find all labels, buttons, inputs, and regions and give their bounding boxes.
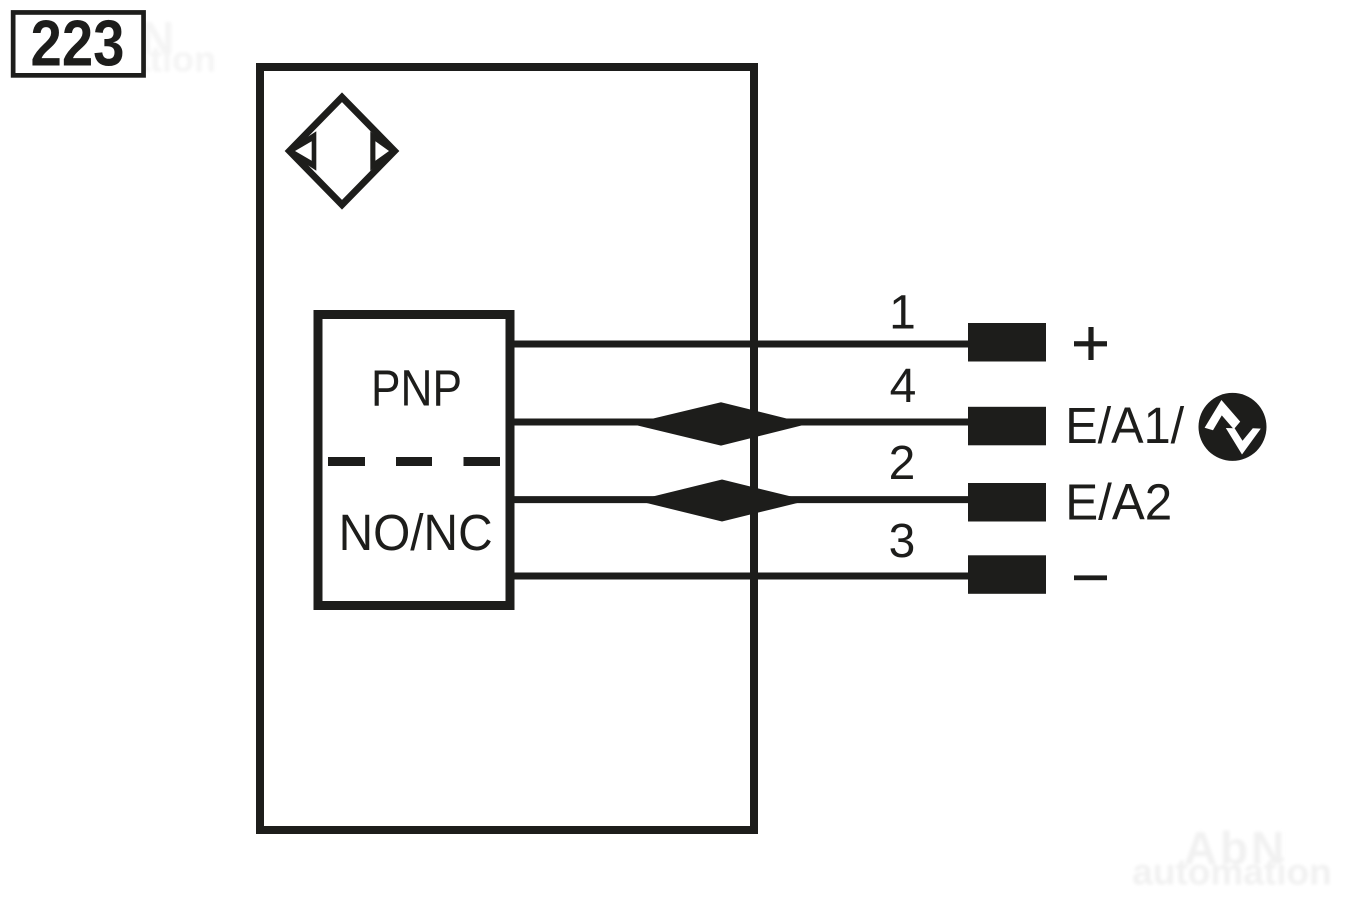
svg-text:NO/NC: NO/NC [339,504,493,561]
svg-text:PNP: PNP [371,360,462,417]
arrow diamond on wire 4 [631,402,808,445]
svg-text:2: 2 [889,437,916,490]
terminal pin 1 [968,323,1046,362]
terminal pin 3 [968,555,1046,594]
minus label [1074,575,1107,580]
wire 1 [508,341,968,348]
svg-text:E/A1/: E/A1/ [1065,397,1185,454]
dashed divider [328,457,500,466]
wire 3 [508,573,968,580]
watermark bottom-right "AbN automation" [1132,822,1331,893]
antivalent output icon (circle with chevrons) [1199,393,1267,461]
output block PNP NO/NC [318,315,510,606]
terminal pin 2 [968,483,1046,522]
svg-text:1: 1 [889,286,916,339]
svg-text:automation: automation [1132,852,1331,893]
watermark top-left "AbN automation" [22,12,216,80]
svg-text:3: 3 [889,515,916,568]
wire 4 [508,419,968,426]
svg-text:223: 223 [31,7,125,80]
plus label [1074,327,1107,360]
wire 2 [508,496,968,503]
sensor body rectangle [260,67,754,830]
svg-text:E/A2: E/A2 [1065,473,1172,530]
arrow diamond on wire 2 [637,480,808,522]
terminal pin 4 [968,407,1046,446]
label frame 223 [13,7,143,80]
svg-text:4: 4 [890,360,917,413]
proximity sensor symbol (diamond) [286,97,395,205]
